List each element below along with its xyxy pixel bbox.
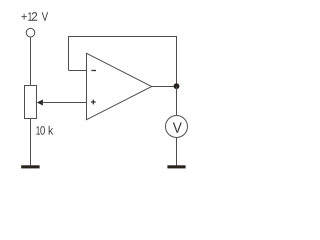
op-amp plus sign <box>91 100 96 105</box>
potentiometer wiper arrowhead <box>37 100 43 106</box>
voltmeter circle <box>166 116 188 138</box>
wiper wire to op-amp noninverting input <box>43 102 87 104</box>
wire potentiometer bottom to ground <box>30 119 32 166</box>
+12 V supply label <box>21 12 48 21</box>
wire terminal to potentiometer top <box>30 37 32 86</box>
voltmeter V label <box>173 122 182 132</box>
+12 V terminal circle <box>26 28 35 37</box>
junction node dot <box>174 83 180 89</box>
wire node to voltmeter <box>176 87 178 116</box>
ground (left) <box>21 165 39 168</box>
wire voltmeter to ground <box>176 138 178 166</box>
10 k value label <box>36 126 53 135</box>
inverting input wire <box>69 70 87 72</box>
feedback wire output to inverting input <box>69 37 177 87</box>
ground (right) <box>167 165 185 168</box>
op-amp U1 triangle <box>87 53 152 119</box>
output wire <box>152 86 177 88</box>
potentiometer body 10k <box>25 86 37 119</box>
op-amp minus sign <box>91 70 96 72</box>
